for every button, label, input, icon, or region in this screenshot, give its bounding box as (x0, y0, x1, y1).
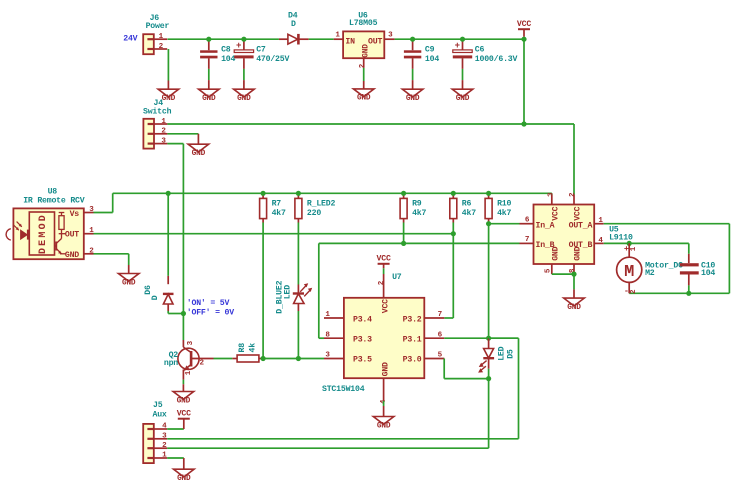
svg-text:VCC: VCC (177, 410, 191, 419)
svg-text:GND: GND (177, 475, 191, 483)
svg-text:OUT_A: OUT_A (569, 221, 593, 230)
svg-text:4k7: 4k7 (412, 208, 426, 218)
wire P3.2 link (444, 317, 453, 319)
svg-text:2: 2 (378, 280, 386, 285)
wire U8 Vs to rail (94, 212, 113, 214)
junction R6 rail (451, 191, 456, 196)
svg-text:1000/6.3V: 1000/6.3V (475, 54, 518, 64)
diode D4 (279, 38, 288, 40)
svg-text:GND: GND (574, 246, 583, 260)
wire OUT_A loop (604, 223, 730, 225)
junction R7 bottom (261, 356, 266, 361)
svg-text:C9: C9 (425, 45, 435, 54)
svg-text:VCC: VCC (517, 20, 531, 29)
wire OUT_B net (604, 242, 689, 244)
resistor R_LED2 (297, 193, 299, 198)
svg-text:4: 4 (598, 237, 603, 245)
transistor Q2 npn (178, 348, 199, 369)
svg-text:4k7: 4k7 (272, 208, 286, 218)
IC U8 IR Remote RCV (13, 208, 83, 259)
svg-text:npn: npn (164, 359, 178, 368)
LED D5 (488, 338, 490, 348)
wire rail to U5 pin3 (551, 193, 553, 194)
svg-text:104: 104 (701, 269, 715, 278)
svg-text:+: + (624, 244, 629, 254)
junction U5 gnd (571, 272, 576, 277)
svg-text:LED: LED (498, 346, 507, 360)
svg-text:D: D (151, 295, 160, 300)
svg-text:3: 3 (162, 433, 167, 441)
svg-text:Vs: Vs (70, 210, 80, 219)
svg-text:GND: GND (202, 95, 216, 103)
svg-text:6: 6 (438, 331, 443, 339)
svg-text:1: 1 (161, 118, 166, 126)
svg-text:1: 1 (185, 370, 193, 375)
wire J5 pin2 net (167, 447, 488, 449)
wire U6 out to VCC corner (395, 38, 524, 40)
junction D5 cathode (486, 376, 491, 381)
junction D_BLUE2 bottom (296, 356, 301, 361)
svg-text:3: 3 (187, 340, 195, 345)
wire VCC vertical (523, 39, 525, 124)
regulator U6 L78M05 (343, 31, 384, 58)
svg-text:R10: R10 (497, 199, 511, 208)
wire D4 to U6 (309, 38, 334, 40)
svg-text:U7: U7 (392, 273, 402, 282)
svg-text:1: 1 (598, 217, 603, 225)
wire R9 column (403, 223, 405, 244)
svg-text:GND: GND (406, 95, 420, 103)
junction R7 rail (261, 191, 266, 196)
svg-text:GND: GND (567, 304, 581, 312)
capacitor C9 (412, 39, 414, 50)
svg-text:1: 1 (325, 311, 330, 319)
svg-text:M: M (624, 263, 634, 282)
svg-text:C8: C8 (221, 45, 231, 54)
svg-text:P3.5: P3.5 (353, 356, 372, 365)
svg-text:3: 3 (89, 206, 94, 214)
junction C8 (206, 37, 211, 42)
junction D6 to rail (166, 191, 171, 196)
U8 internal demodulator box (29, 212, 54, 255)
svg-text:GND: GND (177, 397, 191, 405)
wire J4 pin1 net to VCC junction (167, 123, 574, 125)
svg-text:VCC: VCC (574, 206, 583, 220)
wire J5 pin1 to ground (167, 457, 184, 459)
ground C8 (199, 89, 220, 97)
svg-text:IN: IN (345, 37, 355, 46)
svg-text:2: 2 (630, 289, 638, 294)
junction C9 (410, 37, 415, 42)
svg-text:D6: D6 (144, 285, 153, 295)
wire J4 pin2 to ground (167, 133, 198, 135)
connector J5 Aux (143, 424, 154, 463)
svg-text:'ON' = 5V: 'ON' = 5V (187, 298, 230, 308)
svg-text:IR Remote RCV: IR Remote RCV (23, 196, 85, 205)
svg-text:24V: 24V (123, 34, 137, 43)
svg-text:5: 5 (438, 351, 443, 359)
svg-text:GND: GND (237, 95, 251, 103)
junction VCC (521, 37, 526, 42)
ground C9 (402, 89, 423, 97)
resistor R6 (452, 193, 454, 198)
svg-text:2: 2 (359, 63, 367, 68)
wire J5 pin4 to VCC (167, 428, 184, 430)
svg-text:C7: C7 (256, 45, 266, 54)
ground J4 (188, 144, 209, 152)
svg-text:3: 3 (325, 351, 330, 359)
svg-text:VCC: VCC (551, 206, 560, 220)
wire D5 anode loop to J5 pin3 (489, 337, 519, 339)
svg-text:GND: GND (65, 251, 79, 260)
wire R7 column (262, 223, 264, 359)
motor M2 Motor_DC (628, 243, 630, 257)
svg-text:4k: 4k (248, 343, 258, 353)
wire P3.1 net (444, 337, 518, 339)
svg-text:8: 8 (325, 331, 330, 339)
wire 24V net (168, 38, 279, 40)
resistor R10 (488, 193, 490, 198)
svg-text:6: 6 (525, 216, 530, 224)
svg-text:STC15W104: STC15W104 (322, 385, 365, 394)
connector J6 Power (143, 34, 154, 54)
wire U7 gnd (383, 401, 385, 406)
junction R9 rail (401, 191, 406, 196)
resistor R9 (403, 193, 405, 198)
svg-text:3: 3 (388, 31, 393, 39)
svg-text:R_LED2: R_LED2 (307, 199, 336, 208)
wire J5 pin3 net (167, 438, 518, 440)
svg-text:104: 104 (221, 55, 235, 64)
U8 internal resistor (59, 216, 64, 230)
svg-text:GND: GND (122, 279, 136, 287)
svg-text:J5: J5 (153, 401, 163, 410)
U8 internal photodiode (6, 229, 11, 240)
junction C10 bottom (686, 291, 691, 296)
capacitor C7 (243, 39, 245, 50)
svg-text:104: 104 (425, 55, 439, 64)
wire D5 cathode (488, 369, 490, 379)
svg-text:GND: GND (357, 95, 371, 103)
svg-text:GND: GND (456, 95, 470, 103)
wire U5 gnd (552, 273, 574, 275)
wire U8 GND (94, 253, 129, 255)
IC U5 L9110 (534, 205, 595, 265)
svg-text:GND: GND (381, 362, 390, 376)
svg-text:GND: GND (192, 150, 206, 158)
svg-text:VCC: VCC (377, 255, 391, 264)
svg-text:P3.1: P3.1 (403, 336, 422, 345)
svg-text:D5: D5 (507, 349, 516, 359)
svg-text:Power: Power (146, 22, 170, 31)
svg-text:R6: R6 (462, 199, 472, 208)
svg-text:'OFF' = 0V: 'OFF' = 0V (187, 308, 234, 318)
ground C6 (452, 89, 473, 97)
wire J6 pin2 to ground (167, 49, 169, 81)
wire D5 cathode to J5 pin2 (488, 379, 490, 449)
wire P3.0 net (443, 359, 445, 379)
svg-text:7: 7 (525, 236, 530, 244)
svg-text:-: - (624, 286, 629, 296)
connector J4 Switch (143, 119, 154, 149)
svg-text:VCC: VCC (381, 299, 390, 313)
svg-text:M2: M2 (645, 269, 655, 278)
svg-text:P3.2: P3.2 (403, 315, 422, 324)
svg-text:GND: GND (162, 95, 176, 103)
U8 internal transistor (55, 242, 57, 251)
wire R6 column (452, 223, 454, 319)
diode D6 (167, 193, 169, 276)
capacitor C10 (688, 243, 690, 253)
wire Q2 emitter to ground (182, 380, 184, 385)
svg-text:7: 7 (438, 311, 443, 319)
junction R10 In_A (486, 221, 491, 226)
svg-text:4: 4 (162, 423, 167, 431)
svg-text:DEMOD: DEMOD (38, 213, 49, 254)
svg-text:1: 1 (335, 31, 340, 39)
IC U7 STC15W104 (344, 298, 424, 378)
svg-text:1: 1 (630, 246, 638, 251)
svg-text:3: 3 (547, 192, 555, 197)
svg-text:1: 1 (89, 227, 94, 235)
svg-text:1: 1 (162, 452, 167, 460)
svg-text:U8: U8 (48, 188, 58, 197)
ground U7 (373, 417, 394, 425)
ground U6 (353, 89, 374, 97)
resistor R8 (232, 358, 237, 360)
svg-text:2: 2 (161, 128, 166, 136)
capacitor C6 (462, 39, 464, 50)
wire U6 gnd (363, 68, 365, 81)
junction C7 (241, 37, 246, 42)
svg-text:5: 5 (545, 268, 553, 273)
svg-text:4k7: 4k7 (462, 208, 476, 218)
svg-text:P3.4: P3.4 (353, 315, 372, 324)
junction R10 rail (486, 191, 491, 196)
svg-text:220: 220 (307, 209, 321, 218)
wire R_LED2 to D_BLUE2 (297, 223, 299, 285)
svg-text:2: 2 (569, 192, 577, 197)
wire In_B net (319, 242, 520, 244)
svg-text:470/25V: 470/25V (256, 54, 289, 64)
ground J6 (158, 89, 179, 97)
wire J4 pin3 to Q2 base (167, 143, 183, 145)
resistor R7 (262, 193, 264, 198)
LED D_BLUE2 (297, 285, 299, 294)
junction R6 OUT net (451, 231, 456, 236)
svg-text:GND: GND (362, 44, 370, 58)
svg-text:4k7: 4k7 (497, 208, 511, 218)
ground Q2 (173, 392, 194, 400)
wire down to U5 VCC pin2 (573, 124, 575, 195)
wire Q2 collector to R8 (214, 358, 233, 360)
svg-text:1: 1 (159, 33, 164, 41)
svg-text:Switch: Switch (143, 107, 172, 117)
ground U5 (564, 298, 585, 306)
svg-text:Aux: Aux (153, 411, 167, 420)
svg-text:2: 2 (162, 442, 167, 450)
junction D6 to base line (181, 311, 186, 316)
svg-text:D: D (291, 20, 296, 29)
svg-text:GND: GND (551, 246, 560, 260)
wire R10 column (488, 223, 490, 339)
svg-text:C6: C6 (475, 45, 485, 54)
svg-text:R8: R8 (238, 343, 247, 353)
junction R_LED2 rail (296, 191, 301, 196)
svg-text:R9: R9 (412, 199, 422, 208)
svg-text:OUT: OUT (65, 231, 79, 240)
junction rail (521, 121, 526, 126)
svg-text:LED: LED (284, 285, 293, 299)
wire In_A net (489, 223, 520, 225)
svg-text:In_A: In_A (536, 221, 555, 230)
capacitor C8 (208, 39, 210, 50)
junction motor plus (627, 241, 632, 246)
ground C7 (234, 89, 255, 97)
svg-text:R7: R7 (272, 199, 282, 208)
svg-text:3: 3 (161, 137, 166, 145)
svg-text:GND: GND (377, 422, 391, 430)
ground J5 (174, 469, 195, 477)
ground U8 (118, 274, 139, 282)
svg-text:2: 2 (159, 43, 164, 51)
junction D5 anode (486, 336, 491, 341)
junction R9 In_B (401, 241, 406, 246)
wire U8 OUT net (94, 233, 454, 235)
junction C6 (460, 37, 465, 42)
svg-text:2: 2 (89, 247, 94, 255)
svg-text:L78M05: L78M05 (349, 19, 378, 28)
wire D_BLUE2 to P3.5 net (297, 311, 299, 359)
svg-text:P3.0: P3.0 (403, 356, 422, 365)
wire VCC rail (113, 192, 552, 194)
wire R8 to U7 P3.5 (263, 358, 324, 360)
svg-text:P3.3: P3.3 (353, 336, 372, 345)
svg-text:2: 2 (200, 360, 205, 368)
